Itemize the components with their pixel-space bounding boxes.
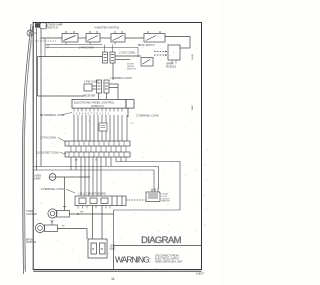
svg-text:WARNING:: WARNING: — [115, 254, 151, 264]
svg-text:6B TERMINAL CONN: 6B TERMINAL CONN — [40, 114, 65, 117]
svg-text:2 TERMINAL CONN: 2 TERMINAL CONN — [136, 115, 159, 118]
svg-text:W: W — [95, 160, 97, 162]
svg-text:2 PIN CONN: 2 PIN CONN — [79, 46, 94, 50]
svg-text:BROIL SWITCH: BROIL SWITCH — [138, 45, 155, 47]
svg-text:4 TERMINAL CONN: 4 TERMINAL CONN — [110, 77, 132, 80]
svg-text:B: B — [92, 247, 94, 251]
svg-text:IGNITER: IGNITER — [27, 213, 37, 216]
svg-text:LAMP: LAMP — [34, 177, 41, 180]
svg-text:SWITCH: SWITCH — [127, 68, 136, 70]
svg-text:60HZ: 60HZ — [110, 247, 116, 250]
svg-text:SWITCH: SWITCH — [48, 25, 58, 29]
svg-text:1234567891111: 1234567891111 — [73, 113, 111, 116]
svg-text:2 SOC CONN: 2 SOC CONN — [119, 51, 135, 55]
svg-text:PART: PART — [191, 104, 194, 110]
svg-text:MODULE: MODULE — [166, 65, 177, 68]
svg-text:WHEN SERVICING UNIT: WHEN SERVICING UNIT — [155, 261, 183, 264]
svg-text:DIAGRAM: DIAGRAM — [141, 235, 182, 246]
svg-text:SWITCH: SWITCH — [162, 201, 171, 203]
svg-text:4 HEATER SWITCH: 4 HEATER SWITCH — [94, 26, 119, 30]
svg-text:8 TERMINAL CONN: 8 TERMINAL CONN — [41, 188, 64, 191]
svg-text:11: 11 — [111, 277, 115, 281]
svg-text:IGNITER: IGNITER — [26, 241, 36, 244]
svg-text:419577: 419577 — [196, 273, 205, 276]
svg-text:10 SOCKET CONN: 10 SOCKET CONN — [37, 152, 59, 155]
svg-text:L.M.C. CIRCUIT BOARD: L.M.C. CIRCUIT BOARD — [78, 193, 106, 196]
svg-text:RECEIVER: RECEIVER — [83, 95, 95, 98]
svg-text:WH: WH — [80, 212, 84, 214]
svg-text:(DISPLAY): (DISPLAY) — [91, 104, 104, 108]
svg-text:12 PIN CONN: 12 PIN CONN — [40, 137, 56, 140]
